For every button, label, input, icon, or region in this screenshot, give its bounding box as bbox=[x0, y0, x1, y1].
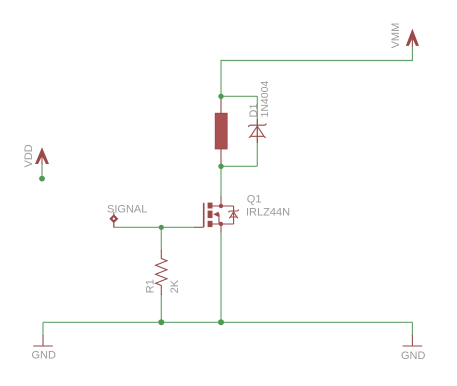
svg-text:Q1: Q1 bbox=[247, 193, 262, 205]
svg-text:GND: GND bbox=[401, 350, 426, 362]
svg-text:GND: GND bbox=[32, 349, 57, 361]
svg-text:VMM: VMM bbox=[390, 23, 402, 49]
svg-text:SIGNAL: SIGNAL bbox=[107, 204, 147, 216]
svg-text:IRLZ44N: IRLZ44N bbox=[246, 207, 290, 219]
svg-text:VDD: VDD bbox=[23, 144, 35, 167]
svg-text:2K: 2K bbox=[169, 279, 181, 293]
svg-text:R1: R1 bbox=[145, 279, 157, 293]
svg-text:1N4004: 1N4004 bbox=[259, 81, 271, 118]
